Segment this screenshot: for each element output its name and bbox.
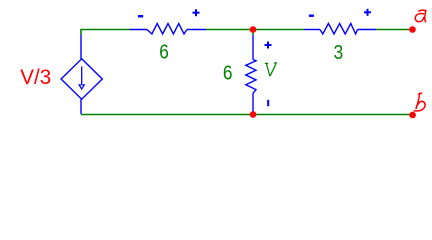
node b terminal dot	[409, 112, 416, 119]
label plus for R2 voltage V	[265, 42, 272, 49]
dependent source B1 V/3 diamond	[61, 35, 102, 114]
wire middle green stub at top node	[252, 30, 254, 36]
label minus for R1	[138, 15, 143, 18]
label minus tick for R2 voltage	[267, 100, 269, 106]
label minus for R3	[309, 15, 314, 17]
svg-text:6: 6	[159, 40, 169, 63]
label 3 for R3	[334, 41, 344, 64]
resistor R2 6 ohm middle vertical	[246, 35, 256, 113]
resistor R3 3 ohm top-right	[304, 24, 376, 35]
wire top-right green segment	[376, 29, 413, 31]
wire bottom green segment	[81, 114, 413, 116]
label 6 for R2	[223, 61, 233, 84]
label b	[414, 93, 425, 111]
svg-text:V/3: V/3	[20, 66, 51, 89]
node a terminal dot	[409, 26, 416, 33]
junction dot top-middle node	[250, 26, 257, 33]
label 6 for R1	[159, 40, 169, 63]
label a	[415, 10, 426, 22]
label plus for R1	[193, 9, 200, 16]
svg-text:6: 6	[223, 61, 233, 84]
label V/3 for source	[20, 66, 51, 89]
wire top-left green segment	[81, 30, 130, 36]
svg-text:3: 3	[334, 41, 344, 64]
junction dot bottom-middle node	[250, 111, 257, 118]
wire top-middle green segment	[206, 29, 304, 31]
label plus for R3	[364, 9, 371, 16]
resistor R1 6 ohm top-left	[130, 24, 207, 35]
label V voltage across R2	[265, 63, 277, 76]
